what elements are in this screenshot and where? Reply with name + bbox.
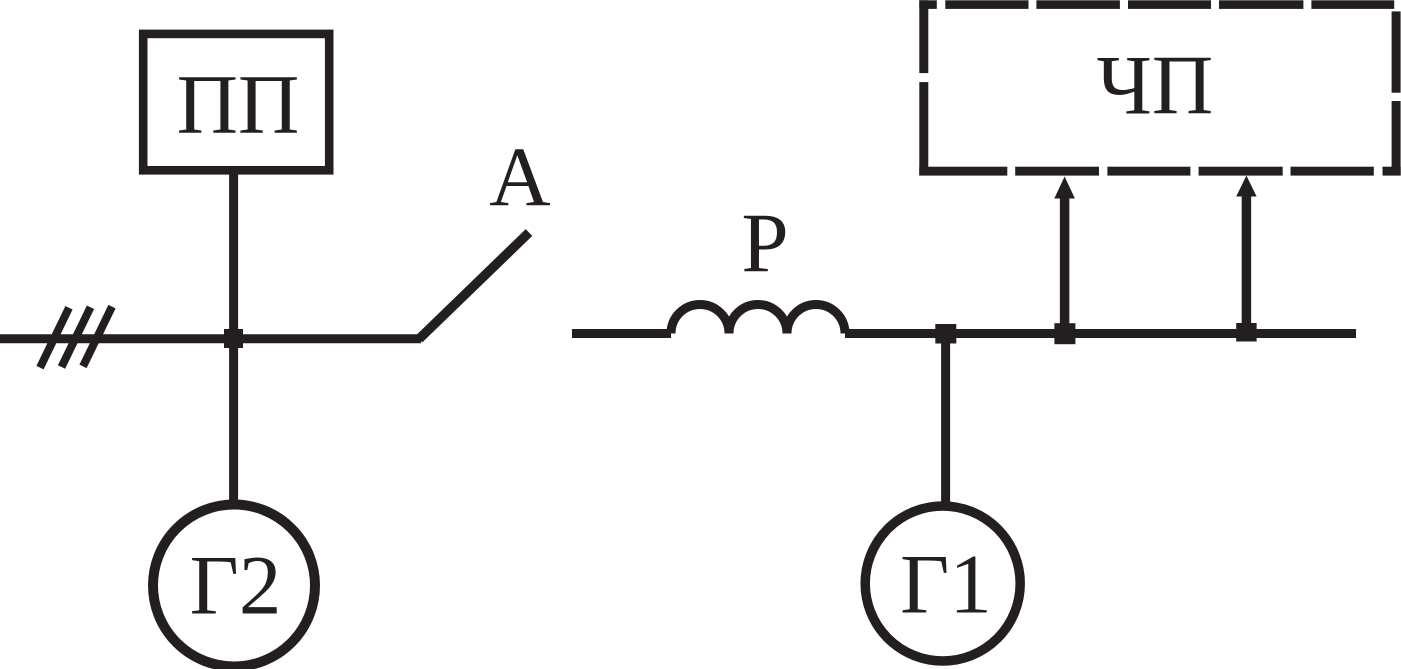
wire ПП box to bus and down to Г2: [229, 170, 238, 503]
arrow 1 shaft: [1060, 197, 1070, 334]
svg-text:Р: Р: [741, 197, 788, 291]
arrow 2 head: [1236, 176, 1256, 197]
hatch mark 3: [83, 307, 112, 367]
right edge dashes: [1392, 11, 1401, 92]
arrow 2 shaft: [1242, 196, 1252, 334]
generator Г1 circle: [865, 506, 1020, 661]
svg-text:Г1: Г1: [900, 538, 992, 632]
generator Г2 circle: [153, 505, 315, 667]
svg-text:ЧП: ЧП: [1097, 39, 1214, 133]
svg-text:A: A: [489, 131, 550, 225]
reactor Р coil: [671, 305, 845, 334]
hatch mark 2: [62, 307, 91, 367]
bus right segment right of reactor: [845, 329, 1356, 338]
svg-text:ПП: ПП: [177, 58, 300, 152]
bottom edge dashes: [919, 167, 1007, 176]
box ПП (feeder block): [143, 34, 329, 170]
junction node arrow 2: [1236, 323, 1256, 342]
junction node arrow 1: [1054, 323, 1075, 344]
bus right segment left of reactor: [572, 329, 671, 338]
wire bus to Г1: [941, 330, 950, 506]
switch A blade: [419, 233, 529, 340]
arrow 1 head: [1054, 177, 1075, 199]
left edge dashes: [919, 0, 928, 73]
junction node to Г1: [935, 324, 956, 344]
top edge dashes: [919, 0, 937, 9]
converter ЧП dashed box: [919, 0, 1400, 175]
svg-text:Г2: Г2: [190, 539, 282, 633]
junction node on left bus: [224, 329, 243, 348]
bus left (system busbar): [0, 334, 421, 343]
hatch mark 1: [40, 308, 69, 368]
